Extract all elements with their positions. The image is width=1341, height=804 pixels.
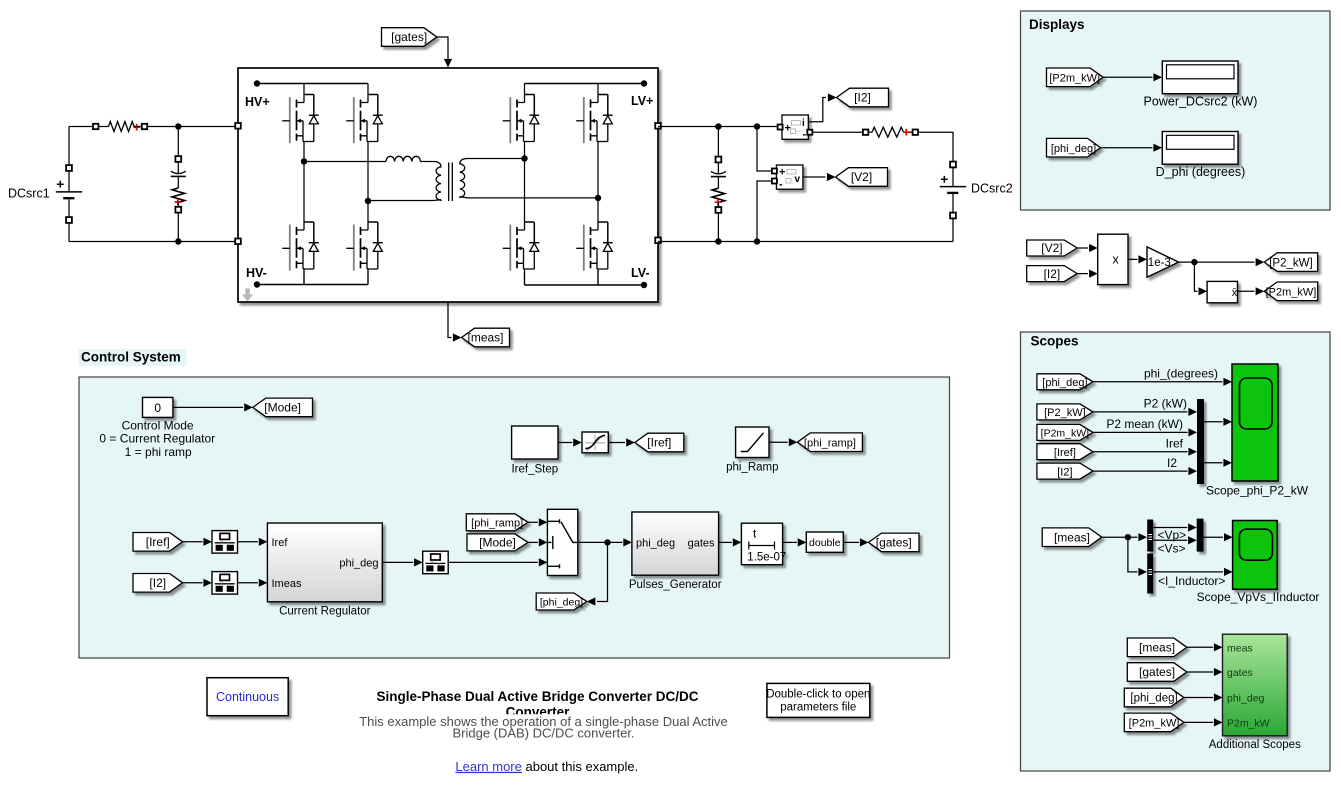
arrowhead mux1 in1 [1188, 408, 1197, 416]
svg-text:[gates]: [gates] [876, 536, 912, 550]
arrowhead display2 [1153, 144, 1162, 152]
svg-text:Scopes: Scopes [1031, 334, 1079, 349]
svg-text:v: v [795, 174, 801, 185]
subsystem DAB bridge box [238, 68, 658, 302]
arrowhead mux1 in3 [1188, 448, 1197, 456]
source block phi_Ramp [736, 427, 769, 458]
svg-text:Pulses_Generator: Pulses_Generator [629, 579, 722, 591]
wire bridge meas [448, 302, 452, 338]
transistor Q8 MOSFET with body diode [576, 222, 613, 271]
capacitor C1 plates [171, 171, 186, 173]
svg-text:[I2]: [I2] [149, 576, 166, 590]
arrowhead addscopes in4 [1214, 718, 1223, 726]
svg-text:[gates]: [gates] [1139, 665, 1175, 679]
data type conversion double block [806, 532, 843, 552]
svg-text:[phi_deg]: [phi_deg] [1042, 377, 1087, 389]
label R1 plus [133, 124, 140, 131]
wire snubber1 cap lead [177, 162, 179, 174]
panel Scopes [1021, 332, 1331, 771]
svg-text:i: i [802, 118, 805, 129]
display block D_phi [1162, 132, 1238, 165]
svg-text:P2 (kW): P2 (kW) [1144, 397, 1187, 411]
node J6 bottom (vsense) [754, 238, 760, 244]
inductor L1 [386, 156, 420, 161]
block Double-click parameters [766, 683, 870, 717]
wire C1 to R2 [177, 176, 179, 188]
svg-text:gates: gates [1227, 667, 1253, 679]
svg-text:HV+: HV+ [245, 95, 270, 109]
node J4 (vsense top) [754, 123, 760, 129]
arrowhead addscopes in2 [1214, 668, 1223, 676]
gain block 1e-3 [1147, 247, 1179, 277]
from tag [I2] scope [1037, 463, 1093, 479]
wire leg4 upper [597, 84, 599, 95]
node HV+ dot [254, 80, 260, 86]
wire I2 signal [808, 98, 826, 122]
svg-text:Iref_Step: Iref_Step [511, 464, 558, 476]
wire DCsrc1 bottom [68, 223, 70, 242]
svg-text:DCsrc1: DCsrc1 [8, 187, 50, 201]
wire R2 to port [177, 202, 179, 207]
node LV- dot [641, 282, 647, 288]
wire LV- rail [525, 271, 645, 285]
node LV+ dot [641, 80, 647, 86]
from tag [Mode] switch [467, 534, 528, 551]
wire phi_ramp to switch [528, 521, 538, 523]
port DCsrc1 minus [66, 217, 72, 223]
svg-text:+: + [779, 167, 785, 179]
wire R1 to bridge [147, 126, 234, 128]
goto tag [Iref] [635, 433, 684, 452]
arrowhead mux1 in2 [1188, 428, 1197, 436]
svg-text:[P2m_kW]: [P2m_kW] [1041, 428, 1090, 440]
port V2 sensor plus [772, 169, 777, 174]
arrowhead into [gates] [860, 538, 869, 546]
port snubber2 bottom [716, 207, 722, 213]
wire R1 lead left [98, 126, 108, 128]
port LV- on bridge right edge [655, 238, 661, 244]
svg-text:double: double [809, 537, 841, 549]
svg-text:HV-: HV- [246, 266, 267, 280]
arrowhead into [meas] [453, 333, 462, 341]
svg-text:Bridge (DAB) DC/DC converter.: Bridge (DAB) DC/DC converter. [452, 726, 634, 741]
wire leg4 mid [597, 144, 599, 223]
arrowhead saturation in [573, 438, 582, 446]
transistor Q5 MOSFET with body diode [282, 222, 319, 271]
port DCsrc2 minus [950, 213, 956, 219]
svg-text:+: + [785, 123, 791, 135]
wire HV+ rail [257, 83, 368, 85]
resistor R2 snubber [172, 188, 185, 202]
port R1 left [93, 124, 98, 129]
goto tag [gates] [869, 533, 920, 552]
arrowhead mux1 in4 [1188, 467, 1197, 475]
label R4 plus [903, 129, 910, 136]
transport delay block [741, 523, 786, 565]
wire constant to Mode [173, 406, 243, 408]
arrowhead product in2 [1089, 270, 1098, 278]
wire R1 lead right [134, 126, 142, 128]
goto tag [P2_kW] [1264, 253, 1318, 272]
arrowhead scope1 in1 [1223, 378, 1232, 386]
port R4 right [913, 130, 918, 135]
node P2 branch [1191, 259, 1197, 265]
svg-text:phi_deg: phi_deg [339, 557, 378, 569]
wire switch out [578, 541, 623, 543]
svg-text:[I2]: [I2] [854, 91, 871, 105]
transistor Q2 MOSFET with body diode [346, 95, 383, 144]
arrowhead mux2 in2 [1188, 536, 1197, 544]
resistor R4 [872, 127, 904, 137]
goto tag [V2] [836, 168, 888, 187]
wire PG to delay [719, 541, 732, 543]
arrowhead into [V2] [827, 173, 836, 181]
wire phi_deg to display [1101, 147, 1153, 149]
svg-text:<Vp>: <Vp> [1158, 528, 1187, 542]
transistor Q3 MOSFET with body diode [503, 95, 540, 144]
svg-text:[Iref]: [Iref] [647, 436, 671, 450]
svg-text:x: x [1113, 253, 1120, 267]
wire product to gain [1128, 258, 1138, 260]
from tag [gates] top [382, 28, 437, 47]
svg-text:[phi_deg]: [phi_deg] [540, 597, 583, 609]
from tag [phi_deg] scope [1037, 374, 1093, 390]
label R3 plus [715, 199, 722, 206]
svg-text:DCsrc2: DCsrc2 [971, 182, 1013, 196]
wire DCsrc2 plate lead [952, 167, 954, 186]
svg-text:[P2m_kW]: [P2m_kW] [1266, 287, 1317, 299]
node bridge B (leg2 mid) [365, 198, 371, 204]
panel Displays [1021, 11, 1331, 210]
wire leg2 mid [367, 144, 369, 223]
arrowhead into [P2m_kW] [1256, 287, 1265, 295]
scope block Scope_phi_P2_kW [1232, 364, 1278, 481]
port V2 sensor minus [772, 179, 777, 184]
svg-text:LV+: LV+ [631, 94, 653, 108]
arrowhead into [phi_deg] goto [587, 597, 596, 605]
svg-text:Control Mode: Control Mode [122, 418, 194, 432]
svg-text:[Mode]: [Mode] [479, 536, 516, 550]
node bridge A (leg1 mid) [301, 158, 307, 164]
wire leg1 upper [303, 84, 305, 95]
svg-text:Scope_phi_P2_kW: Scope_phi_P2_kW [1206, 484, 1309, 498]
port R1 right [142, 124, 147, 129]
arrowhead scope2 in1 [1224, 533, 1233, 541]
svg-text:[meas]: [meas] [1054, 530, 1090, 544]
rate transition RT2 [212, 572, 238, 595]
constant block Control Mode [143, 397, 173, 417]
resistor R3 snubber [712, 188, 725, 202]
arrowhead into [Mode] [244, 403, 253, 411]
arrowhead addscopes in3 [1214, 693, 1223, 701]
svg-text:I2: I2 [1167, 456, 1177, 470]
rate transition RT1 [212, 531, 238, 554]
subsystem Current Regulator block [267, 523, 382, 602]
svg-text:[phi_deg]: [phi_deg] [1051, 143, 1096, 155]
svg-text:[I2]: [I2] [1057, 466, 1072, 478]
svg-text:Power_DCsrc2 (kW): Power_DCsrc2 (kW) [1144, 94, 1258, 108]
from tag [phi_deg] additional [1124, 688, 1184, 707]
bus selector 1 bar [1147, 520, 1153, 552]
svg-text:[meas]: [meas] [1139, 641, 1175, 655]
svg-text:x̄: x̄ [1232, 287, 1238, 299]
wire snubber1 to bottom [177, 213, 179, 242]
wire branch to phi_deg goto [597, 542, 608, 601]
from tag [P2_kW] scope [1037, 404, 1093, 420]
wire phi_Ramp to tag [769, 441, 788, 443]
arrowhead into [Iref] [626, 438, 635, 446]
wire mean out [1238, 290, 1255, 292]
from tag [gates] additional [1127, 663, 1187, 682]
wire phi_deg to addscopes [1184, 697, 1213, 699]
wire bridge to LV top [658, 126, 777, 128]
svg-text:Learn more about this example.: Learn more about this example. [455, 759, 638, 774]
wire Vp to mux2 [1153, 527, 1187, 529]
arrowhead double in [798, 538, 807, 546]
port I2 sensor in [778, 125, 783, 130]
wire vsense plus feed [757, 127, 772, 172]
arrowhead mean in [1199, 287, 1208, 295]
wire meas to addscopes [1187, 646, 1213, 648]
svg-text:Double-click to open: Double-click to open [766, 689, 870, 701]
wire C2 to R3 [717, 177, 719, 189]
wire LV+ rail [525, 83, 645, 85]
svg-text:[I2]: [I2] [1044, 267, 1061, 281]
svg-text:[phi_ramp]: [phi_ramp] [804, 437, 856, 449]
svg-text:<I_Inductor>: <I_Inductor> [1158, 574, 1225, 588]
from tag [Iref] scope [1037, 444, 1093, 460]
svg-text:Continuous: Continuous [216, 690, 279, 704]
wire transformer secondary top to node C [468, 158, 525, 160]
goto tag [Mode] [253, 398, 313, 417]
subsystem Iref_Step block [512, 426, 558, 459]
svg-text:P2 mean (kW): P2 mean (kW) [1106, 417, 1183, 431]
wire leg1 mid [303, 144, 305, 223]
svg-text:parameters file: parameters file [780, 702, 856, 714]
wire gain out [1179, 261, 1255, 263]
wire gates to bridge [437, 37, 448, 59]
svg-text:D_phi (degrees): D_phi (degrees) [1156, 165, 1246, 179]
wire meas to selector1 [1102, 536, 1138, 538]
svg-text:Iref: Iref [1166, 437, 1184, 451]
port HV+ on bridge left edge [235, 123, 241, 129]
wire I2 to mux [1093, 470, 1188, 472]
wire Iref_Step to saturation [558, 442, 572, 444]
wire branch to mean [1194, 262, 1197, 291]
arrowhead RT1 in [203, 538, 212, 546]
node J3 (snubber2 top) [715, 123, 721, 129]
goto tag [meas] [462, 328, 510, 347]
wire bottom-left rail [69, 241, 235, 243]
wire snubber2 down [717, 127, 719, 157]
wire mux to scope1 b [1204, 462, 1223, 464]
from tag [P2m_kW] display [1047, 68, 1104, 87]
from tag [I2] product [1027, 266, 1078, 282]
svg-text:[phi_ramp]: [phi_ramp] [471, 518, 523, 530]
goto tag [phi_ramp] [797, 433, 862, 452]
wire transformer secondary bottom to node D [468, 197, 599, 199]
panel Control System area [79, 377, 950, 658]
transistor Q6 MOSFET with body diode [346, 222, 383, 271]
port snubber1 top [175, 156, 181, 162]
bus selector 2 bar [1147, 554, 1153, 594]
node HV- dot [254, 281, 260, 287]
mean block [1207, 281, 1238, 302]
port HV- on bridge left edge [235, 239, 241, 245]
svg-text:Imeas: Imeas [272, 578, 302, 590]
wire phi_deg to scope [1093, 381, 1223, 383]
wire J1 down to snubber1 [177, 127, 179, 157]
wire transformer primary bottom to node B [368, 200, 434, 202]
wire inductor to transformer [420, 161, 433, 163]
wire I2 to RT2 [183, 582, 203, 584]
svg-text:[gates]: [gates] [391, 30, 427, 44]
wire IInductor to scope2 [1153, 571, 1223, 573]
from tag [I2] lower [133, 574, 183, 593]
display block Power_DCsrc2 [1162, 61, 1238, 94]
svg-text:[Iref]: [Iref] [1054, 447, 1076, 459]
svg-text:[V2]: [V2] [851, 170, 872, 184]
arrowhead switch in3 [539, 558, 548, 566]
subsystem Additional Scopes block [1223, 634, 1288, 736]
from tag [P2m_kW] scope [1037, 424, 1093, 440]
wire Iref to RT1 [183, 541, 203, 543]
wire R3 to port [717, 203, 719, 208]
wire P2m_kW to mux [1093, 431, 1188, 433]
svg-text:Control System: Control System [81, 350, 181, 365]
wire DCsrc1 top [69, 126, 93, 128]
svg-text:gates: gates [688, 537, 715, 549]
svg-text:-: - [779, 179, 783, 191]
transformer T1 primary winding [434, 162, 442, 201]
wire DCsrc2 minus lead [952, 194, 954, 213]
mux bar scope2 [1197, 519, 1204, 552]
from tag [Iref] lower [133, 533, 183, 552]
svg-text:1e-3: 1e-3 [1148, 257, 1171, 269]
wire P2m_kW to addscopes [1184, 721, 1213, 723]
node phi branch [604, 539, 610, 545]
arrowhead into [phi_ramp] [789, 438, 798, 446]
arrowhead scope1 in3 [1223, 459, 1232, 467]
wire bottom-right rail [658, 241, 953, 243]
from tag [meas] additional [1127, 638, 1187, 657]
goto tag [P2m_kW] [1264, 282, 1318, 301]
node bridge C (leg3 mid) [521, 155, 527, 161]
arrowhead mux2 in1 [1188, 523, 1197, 531]
svg-text:Scope_VpVs_IInductor: Scope_VpVs_IInductor [1197, 590, 1320, 604]
arrowhead PG in [623, 538, 632, 546]
transistor Q1 MOSFET with body diode [282, 95, 319, 144]
label Control System title [79, 349, 187, 366]
wire Vs to mux2 [1153, 539, 1187, 541]
svg-text:0 = Current Regulator: 0 = Current Regulator [99, 432, 215, 446]
wire HV- rail [257, 271, 368, 285]
svg-text:Single-Phase Dual Active Bridg: Single-Phase Dual Active Bridge Converte… [376, 689, 698, 704]
goto tag [I2] [837, 88, 889, 107]
wire I2 to product [1077, 273, 1088, 275]
port R4 left [863, 130, 868, 135]
from tag [meas] scope [1042, 528, 1102, 547]
wire DCsrc1 plate lead [68, 171, 70, 192]
arrowhead CR in1 [259, 538, 268, 546]
svg-text:phi_(degrees): phi_(degrees) [1144, 367, 1218, 381]
svg-text:[P2m_kW]: [P2m_kW] [1129, 718, 1180, 730]
wire P2_kW to mux [1093, 411, 1188, 413]
gray subsystem arrow icon [242, 289, 253, 302]
wire V2 out [803, 176, 826, 178]
port DCsrc1 plus [66, 165, 72, 171]
transformer T1 core [449, 163, 453, 202]
svg-text:[V2]: [V2] [1041, 241, 1062, 255]
svg-text:[P2_kW]: [P2_kW] [1269, 257, 1312, 269]
port snubber1 bottom [175, 207, 181, 213]
battery DCsrc1 [56, 191, 82, 193]
node J1 top-left [175, 123, 181, 129]
wire DCsrc1 minus lead [68, 199, 70, 217]
wire gates to addscopes [1187, 671, 1213, 673]
current sensor I2 block [782, 115, 808, 141]
wire mux to scope1 a [1204, 421, 1223, 423]
arrowhead gates into bridge [444, 59, 452, 68]
svg-text:Displays: Displays [1029, 17, 1085, 32]
wire meas to selector2 [1128, 537, 1138, 572]
svg-text:[P2_kW]: [P2_kW] [1044, 407, 1086, 419]
wire snubber2 to bottom [717, 213, 719, 242]
wire node A to inductor [304, 161, 386, 163]
wire CR to RT3 [382, 561, 413, 563]
svg-text:<Vs>: <Vs> [1158, 541, 1186, 555]
voltage sensor V2 block [776, 165, 803, 191]
wire RT1 to CR [238, 541, 258, 543]
wire Mode to switch [528, 541, 538, 543]
arrowhead display1 [1153, 73, 1162, 81]
capacitor C2 plates [711, 171, 726, 173]
arrowhead into [I2] [828, 93, 837, 101]
arrowhead RT3 in [414, 558, 423, 566]
port I2 sensor out [807, 130, 812, 135]
svg-text:[Mode]: [Mode] [264, 401, 301, 415]
wire DCsrc2 bottom [952, 218, 954, 241]
arrowhead delay in [733, 538, 742, 546]
wire leg3 mid [524, 144, 526, 223]
transformer T1 secondary winding [460, 159, 468, 198]
switch block [547, 509, 577, 575]
wire saturation to Iref [608, 442, 625, 444]
svg-text:phi_Ramp: phi_Ramp [726, 462, 778, 474]
svg-text:[Iref]: [Iref] [146, 535, 170, 549]
label R2 plus [175, 199, 182, 206]
svg-text:1.5e-07: 1.5e-07 [747, 552, 786, 564]
arrowhead selector1 in [1138, 533, 1147, 541]
wire DCsrc1 left leg [68, 127, 70, 166]
arrowhead into [P2_kW] [1256, 258, 1265, 266]
from tag [phi_deg] display [1047, 138, 1101, 157]
node J2 bottom-left [175, 238, 181, 244]
wire leg3 upper [524, 84, 526, 95]
wire sensor to R4 [812, 131, 863, 133]
svg-text:Additional Scopes: Additional Scopes [1209, 739, 1301, 751]
arrowhead selector2 in [1138, 568, 1147, 576]
wire snubber2 cap lead [717, 162, 719, 173]
arrowhead switch in1 [539, 518, 548, 526]
battery DCsrc2 [940, 186, 966, 188]
svg-text:P2m_kW: P2m_kW [1227, 717, 1270, 729]
wire R4 to DCsrc2 [918, 132, 953, 161]
wire P2m to display [1103, 76, 1153, 78]
goto tag [phi_deg] reversed [536, 593, 587, 610]
svg-text:[meas]: [meas] [467, 331, 503, 345]
wire Iref to mux [1093, 451, 1188, 453]
